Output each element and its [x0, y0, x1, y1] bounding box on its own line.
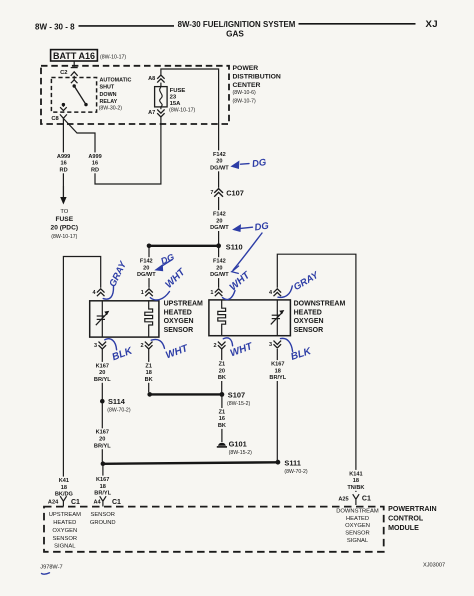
- svg-text:OXYGEN: OXYGEN: [294, 318, 324, 325]
- svg-text:3: 3: [269, 342, 272, 348]
- downstream heater element: [218, 300, 226, 336]
- svg-text:20: 20: [216, 218, 222, 224]
- handwritten leader upstream pin3 BLK: [105, 339, 117, 350]
- svg-text:16: 16: [60, 161, 66, 167]
- svg-text:CENTER: CENTER: [233, 82, 261, 89]
- wire label K41 18 BK/DG: [54, 477, 73, 498]
- junction dot S110: [216, 243, 221, 248]
- svg-text:DG/WT: DG/WT: [210, 165, 229, 171]
- svg-text:16: 16: [219, 416, 225, 422]
- svg-text:F142: F142: [213, 152, 226, 158]
- svg-text:BK: BK: [218, 375, 226, 381]
- svg-text:(8W-10-7): (8W-10-7): [233, 99, 257, 105]
- svg-text:C1: C1: [362, 496, 371, 503]
- wire downstream pin 2 down to S107: [221, 349, 223, 392]
- downstream sensor pin 3 connector: [274, 341, 282, 348]
- handwritten leader upstream pin1 WHT: [150, 292, 169, 300]
- svg-text:K167: K167: [96, 477, 109, 483]
- handwritten leader upstream pin4 GRAY: [103, 287, 113, 300]
- connector C2 symbol: [71, 68, 78, 76]
- downstream heated oxygen sensor box: [209, 300, 291, 336]
- handwritten check mark under J978W-7: [42, 573, 50, 574]
- svg-text:BR/YL: BR/YL: [94, 491, 111, 497]
- svg-text:DG/WT: DG/WT: [210, 272, 229, 278]
- svg-text:8W - 30 - 8: 8W - 30 - 8: [35, 23, 75, 32]
- svg-text:1: 1: [210, 290, 213, 296]
- svg-text:(8W-70-2): (8W-70-2): [107, 408, 131, 414]
- wire S114 to junction: [101, 404, 103, 462]
- PCM pin A24 function label: [49, 512, 81, 550]
- svg-text:18: 18: [61, 485, 67, 491]
- junction dot K167: [101, 461, 106, 466]
- bold wire K167 junction to S111: [103, 462, 278, 464]
- wire S110 down to downstream sensor pin 1: [218, 248, 220, 288]
- svg-text:(8W-10-6): (8W-10-6): [233, 90, 257, 96]
- PCM connector fork A25 C1: [353, 494, 359, 505]
- wire label F142 20 DG/WT upstream leg: [137, 257, 156, 278]
- svg-text:BR/YL: BR/YL: [269, 375, 286, 381]
- svg-text:HEATED: HEATED: [53, 520, 76, 526]
- wire label F142 20 DG/WT downstream leg: [210, 257, 229, 278]
- wire C107 to S110: [218, 197, 220, 244]
- svg-text:(8W-15-2): (8W-15-2): [229, 450, 253, 456]
- svg-text:(8W-15-2): (8W-15-2): [227, 401, 251, 407]
- wire label K167 20 BR/YL upstream pin3: [93, 362, 112, 383]
- svg-text:20: 20: [219, 368, 225, 374]
- svg-text:J978W-7: J978W-7: [40, 565, 62, 571]
- upstream sensor pin 1 connector: [145, 289, 153, 296]
- svg-text:C107: C107: [226, 189, 244, 198]
- svg-text:A999: A999: [57, 154, 70, 160]
- svg-text:K141: K141: [349, 471, 362, 477]
- wire label K167 18 BR/YL to PCM: [93, 476, 112, 497]
- svg-text:HEATED: HEATED: [346, 516, 369, 522]
- svg-text:GRAY: GRAY: [292, 269, 322, 293]
- connector C107 symbol: [214, 189, 223, 197]
- PCM pin A25 function label: [336, 508, 379, 544]
- svg-text:3: 3: [94, 343, 97, 349]
- junction dot S110 left end: [147, 244, 152, 249]
- svg-text:C1: C1: [112, 499, 121, 506]
- bold wire Z1 junction to S107: [150, 393, 222, 395]
- svg-text:RELAY: RELAY: [100, 99, 118, 105]
- wire A7 to fuse: [160, 107, 162, 109]
- PCM pin A4 function label: [90, 512, 116, 526]
- handwritten leader upstream pin2 WHT: [151, 339, 164, 348]
- junction dot S107: [220, 392, 225, 397]
- upstream heated oxygen sensor box: [90, 301, 159, 337]
- svg-text:OXYGEN: OXYGEN: [164, 318, 194, 325]
- svg-text:C1: C1: [71, 499, 80, 506]
- svg-text:TO: TO: [60, 209, 68, 215]
- svg-text:S107: S107: [228, 390, 245, 399]
- junction dot S111: [276, 460, 281, 465]
- svg-text:2: 2: [213, 343, 216, 349]
- svg-text:A999: A999: [88, 154, 101, 160]
- svg-text:HEATED: HEATED: [294, 309, 322, 316]
- svg-text:XJ03007: XJ03007: [423, 562, 445, 568]
- svg-text:8W-30 FUEL/IGNITION SYSTEM: 8W-30 FUEL/IGNITION SYSTEM: [178, 20, 296, 29]
- svg-text:BLK: BLK: [290, 346, 314, 363]
- svg-text:K41: K41: [59, 478, 69, 484]
- svg-text:20: 20: [99, 437, 105, 443]
- wire fuse to A8: [160, 83, 162, 87]
- upstream heater element: [145, 301, 153, 337]
- svg-text:(8W-30-2): (8W-30-2): [99, 106, 123, 112]
- svg-text:K167: K167: [96, 363, 109, 369]
- svg-text:DG: DG: [159, 252, 175, 267]
- wire S107 down to G101 ground: [221, 397, 223, 441]
- wire label Z1 16 BK below S107: [212, 408, 231, 429]
- svg-text:S114: S114: [108, 397, 126, 406]
- svg-text:HEATED: HEATED: [164, 309, 192, 316]
- svg-text:BR/YL: BR/YL: [94, 377, 111, 383]
- header rule left: [79, 25, 175, 27]
- wire C2 to relay contact: [73, 76, 75, 79]
- fuse 23 body: [155, 87, 168, 107]
- wire BATT A16 to C2: [73, 61, 75, 67]
- PCM connector fork A24 C1: [60, 496, 66, 506]
- wire upstream pin 3 down to S114: [101, 349, 103, 399]
- wire relay C8 right branch (A999 to fuse 23 A7): [63, 117, 160, 185]
- svg-text:BK: BK: [218, 423, 226, 429]
- handwritten arrow small DG upstream: [162, 260, 173, 267]
- svg-text:A25: A25: [338, 496, 348, 502]
- svg-text:A24: A24: [48, 500, 59, 506]
- svg-text:TN/BK: TN/BK: [347, 485, 364, 491]
- arrow to fuse 20 PDC: [62, 186, 64, 198]
- wire relay C8 left branch (A999 to fuse 20): [62, 119, 64, 187]
- svg-text:DISTRIBUTION: DISTRIBUTION: [233, 74, 281, 81]
- svg-text:20: 20: [143, 265, 149, 271]
- wire downstream pin 3 down to S111: [276, 349, 278, 460]
- relay fixed contact top: [71, 79, 78, 83]
- svg-text:18: 18: [353, 478, 359, 484]
- svg-text:DG: DG: [251, 157, 267, 170]
- svg-text:20: 20: [216, 159, 222, 165]
- junction dot S114: [100, 399, 105, 404]
- svg-text:DOWN: DOWN: [100, 92, 117, 98]
- svg-text:OXYGEN: OXYGEN: [345, 523, 370, 529]
- svg-text:(8W-10-17): (8W-10-17): [100, 54, 126, 60]
- wire label K141 18 TN/BK: [346, 470, 365, 491]
- handwritten leader downstream pin4 GRAY: [278, 286, 292, 297]
- svg-text:POWERTRAIN: POWERTRAIN: [388, 505, 436, 513]
- svg-text:15A: 15A: [170, 101, 182, 107]
- svg-text:WHT: WHT: [228, 269, 253, 293]
- svg-text:A7: A7: [148, 110, 155, 116]
- junction dot Z1: [147, 392, 152, 397]
- svg-text:S111: S111: [284, 458, 300, 467]
- svg-text:C8: C8: [51, 116, 59, 122]
- wire label F142 20 DG/WT mid: [210, 210, 229, 231]
- svg-text:18: 18: [100, 484, 106, 490]
- svg-text:Z1: Z1: [145, 363, 152, 369]
- svg-text:RD: RD: [60, 167, 68, 173]
- svg-text:OXYGEN: OXYGEN: [52, 528, 77, 534]
- svg-text:7: 7: [210, 190, 213, 196]
- svg-text:UPSTREAM: UPSTREAM: [164, 301, 203, 308]
- svg-text:A8: A8: [148, 76, 155, 82]
- svg-text:1: 1: [141, 290, 144, 296]
- handwritten arrow DG upper: [241, 163, 250, 166]
- wire label A999 16 RD right: [86, 152, 105, 173]
- svg-text:Z1: Z1: [219, 362, 226, 368]
- svg-text:(8W-70-2): (8W-70-2): [284, 469, 308, 475]
- svg-text:SHUT: SHUT: [100, 85, 115, 91]
- svg-text:DG/WT: DG/WT: [137, 272, 156, 278]
- wire downstream pin 4 up over and down to PCM A25 (K141): [277, 254, 356, 492]
- svg-text:20: 20: [216, 265, 222, 271]
- downstream sensing element (variable): [271, 300, 282, 336]
- relay switch blade: [74, 86, 86, 105]
- svg-text:F142: F142: [213, 259, 226, 265]
- svg-text:UPSTREAM: UPSTREAM: [49, 512, 81, 518]
- upstream sensor pin 3 connector: [99, 342, 107, 349]
- handwritten long arrow to lower DG/WT: [233, 233, 262, 270]
- wire label A999 16 RD left: [54, 152, 73, 173]
- svg-text:XJ: XJ: [426, 19, 439, 30]
- svg-text:S110: S110: [226, 242, 243, 251]
- power distribution center dashed box: [41, 66, 229, 124]
- svg-text:DOWNSTREAM: DOWNSTREAM: [336, 508, 379, 514]
- svg-text:(8W-10-17): (8W-10-17): [169, 108, 195, 114]
- wire A8 over to F142 drop: [161, 69, 219, 188]
- svg-text:GAS: GAS: [226, 30, 244, 39]
- downstream sensor pin 1 connector: [215, 289, 223, 296]
- header rule right: [299, 23, 416, 25]
- svg-text:FUSE: FUSE: [56, 216, 74, 223]
- svg-text:AUTOMATIC: AUTOMATIC: [100, 78, 132, 84]
- svg-text:C2: C2: [60, 70, 67, 76]
- PCM connector fork A4 C1: [100, 496, 106, 506]
- svg-text:G101: G101: [229, 439, 247, 448]
- upstream sensor pin 2 connector: [145, 342, 153, 349]
- upstream sensing element (variable): [96, 301, 107, 337]
- battery feed box BATT A16: [51, 50, 98, 61]
- svg-text:SIGNAL: SIGNAL: [347, 538, 369, 544]
- svg-text:GROUND: GROUND: [90, 520, 116, 526]
- svg-text:K167: K167: [96, 430, 109, 436]
- wire label Z1 20 BK downstream pin2: [212, 360, 231, 381]
- svg-text:SENSOR: SENSOR: [345, 531, 369, 537]
- handwritten leader downstream pin1 WHT: [223, 291, 236, 300]
- svg-text:Z1: Z1: [219, 409, 226, 415]
- svg-text:(8W-10-17): (8W-10-17): [51, 234, 77, 240]
- svg-text:FUSE: FUSE: [170, 88, 186, 94]
- automatic shut down relay dashed box: [51, 78, 96, 113]
- svg-text:BATT A16: BATT A16: [53, 51, 95, 61]
- connector A7 symbol: [157, 109, 164, 117]
- svg-text:DG/WT: DG/WT: [210, 225, 229, 231]
- handwritten leader downstream pin2 WHT: [223, 338, 232, 346]
- svg-text:RD: RD: [91, 167, 99, 173]
- powertrain control module dashed box: [44, 507, 384, 552]
- svg-text:2: 2: [140, 343, 143, 349]
- wire junction down to PCM A4: [102, 466, 104, 494]
- svg-text:DOWNSTREAM: DOWNSTREAM: [294, 301, 346, 308]
- connector A8 symbol: [157, 75, 164, 83]
- svg-text:BLK: BLK: [111, 345, 135, 363]
- svg-text:20 (PDC): 20 (PDC): [51, 224, 78, 231]
- svg-text:SENSOR: SENSOR: [53, 536, 77, 542]
- svg-text:F142: F142: [140, 259, 153, 265]
- svg-text:20: 20: [99, 370, 105, 376]
- downstream sensor pin 4 connector: [274, 289, 282, 296]
- svg-text:POWER: POWER: [233, 65, 259, 72]
- svg-text:DG: DG: [254, 221, 270, 234]
- svg-text:BK/DG: BK/DG: [55, 492, 73, 498]
- svg-text:SENSOR: SENSOR: [294, 327, 324, 334]
- svg-text:18: 18: [146, 370, 152, 376]
- svg-text:WHT: WHT: [164, 343, 190, 361]
- ground G101 symbol: [217, 441, 227, 447]
- wire upstream pin 2 down to Z1 junction: [148, 349, 150, 392]
- svg-text:F142: F142: [213, 212, 226, 218]
- svg-text:SENSOR: SENSOR: [164, 327, 194, 334]
- svg-text:BR/YL: BR/YL: [94, 443, 111, 449]
- handwritten leader downstream pin3 BLK: [281, 338, 293, 351]
- svg-text:GRAY: GRAY: [107, 258, 129, 288]
- handwritten arrow DG mid: [241, 227, 253, 228]
- bold wire S110 bus: [149, 245, 219, 247]
- fuse 23 element: [160, 87, 163, 106]
- wire label F142 20 DG/WT top: [210, 150, 229, 171]
- wire label K167 18 BR/YL downstream pin3: [268, 360, 287, 381]
- wire label K167 20 BR/YL below S114: [93, 428, 112, 449]
- svg-text:23: 23: [170, 95, 177, 101]
- svg-text:SIGNAL: SIGNAL: [54, 543, 76, 549]
- relay output contact C8: [62, 103, 65, 106]
- svg-text:MODULE: MODULE: [388, 524, 419, 532]
- svg-text:WHT: WHT: [163, 266, 188, 290]
- svg-text:4: 4: [92, 290, 96, 296]
- downstream sensor pin 2 connector: [218, 342, 226, 349]
- wire label Z1 18 BK upstream pin2: [139, 362, 158, 383]
- svg-text:16: 16: [92, 161, 98, 167]
- svg-text:SENSOR: SENSOR: [90, 512, 114, 518]
- svg-text:K167: K167: [271, 362, 284, 368]
- wire S110 left leg down to upstream sensor pin 1: [148, 246, 150, 288]
- svg-text:A4: A4: [93, 500, 101, 506]
- svg-text:4: 4: [269, 290, 273, 296]
- wire upstream pin 4 up over and down to PCM A24 (K41): [63, 257, 100, 495]
- svg-text:CONTROL: CONTROL: [388, 515, 424, 523]
- upstream sensor pin 4 connector: [97, 289, 105, 296]
- svg-text:BK: BK: [145, 377, 153, 383]
- svg-text:18: 18: [275, 368, 281, 374]
